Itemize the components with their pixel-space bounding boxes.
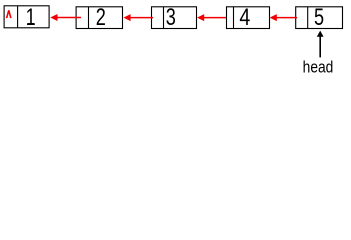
node N3 box: [152, 7, 197, 29]
svg-text:5: 5: [314, 2, 324, 30]
svg-text:1: 1: [26, 2, 36, 30]
svg-text:head: head: [303, 58, 334, 77]
foot of digit 1: [28, 23, 34, 24]
node N5 box: [296, 7, 343, 29]
arrow N5 to N4: [270, 14, 298, 21]
svg-text:3: 3: [166, 2, 176, 30]
node N4 box: [227, 7, 270, 29]
svg-text:2: 2: [96, 2, 106, 30]
svg-text:4: 4: [239, 3, 250, 31]
node N2 box: [76, 7, 122, 29]
arrow N4 to N3: [197, 14, 226, 21]
arrow N3 to N2: [123, 14, 153, 21]
node N1 box: [4, 6, 49, 28]
head pointer arrow (up): [317, 31, 324, 58]
null marker caret in N1 pointer cell: [6, 10, 12, 18]
arrow N2 to N1: [50, 14, 81, 21]
